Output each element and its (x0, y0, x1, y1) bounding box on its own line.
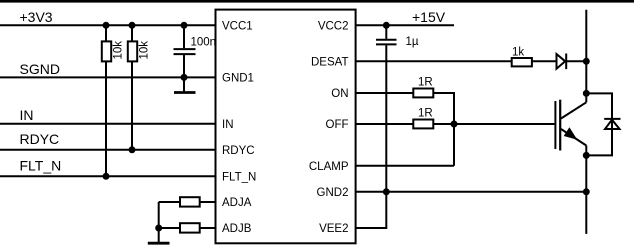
svg-text:10k: 10k (113, 41, 125, 60)
wire OFF to gate (433, 123, 554, 125)
wire emitter rail (585, 146, 587, 234)
svg-text:1R: 1R (418, 77, 433, 89)
wire RDYC (0, 149, 216, 151)
junction ADJ common (155, 225, 162, 232)
junction DESAT/collector rail (583, 58, 590, 65)
capacitor C2 1u (376, 25, 397, 192)
svg-text:DESAT: DESAT (311, 57, 349, 69)
IC U1 body (216, 10, 356, 244)
resistor R5 1k (512, 58, 532, 66)
svg-text:OFF: OFF (326, 119, 349, 131)
ground (SGND) (174, 77, 196, 92)
junction +3V3/R1 (103, 22, 110, 29)
svg-text:+15V: +15V (412, 9, 446, 25)
capacitor C1 100n (174, 25, 196, 77)
svg-text:VEE2: VEE2 (319, 223, 348, 235)
diode D2 freewheeling (586, 93, 620, 155)
svg-text:SGND: SGND (20, 61, 60, 77)
svg-text:IN: IN (222, 119, 234, 131)
svg-text:IN: IN (20, 107, 34, 123)
junction SGND/C1 (181, 74, 188, 81)
svg-text:1µ: 1µ (406, 36, 419, 48)
resistor R7 1R (OFF) (413, 120, 433, 129)
diode D1 (DESAT) (557, 54, 587, 70)
wire ADJA/ADJB common (158, 202, 160, 228)
wire IN (0, 123, 216, 125)
wire GND2 (356, 191, 587, 193)
junction VCC2/C2 (383, 22, 390, 29)
junction GND2/emitter rail (583, 188, 590, 195)
svg-text:1R: 1R (418, 108, 433, 120)
wire +3V3 to VCC1 (0, 24, 216, 26)
wire CLAMP (356, 165, 454, 167)
junction gate node (451, 121, 458, 128)
svg-text:RDYC: RDYC (222, 145, 255, 157)
svg-text:ADJB: ADJB (222, 223, 252, 235)
svg-text:CLAMP: CLAMP (309, 161, 349, 173)
transistor Q1 IGBT (555, 100, 586, 151)
resistor R4 (ADJB) (159, 223, 216, 232)
wire VEE2 (356, 192, 387, 228)
ground (ADJ) (148, 228, 170, 243)
svg-text:ADJA: ADJA (222, 197, 252, 209)
wire VCC2 to +15V (356, 24, 454, 26)
wire SGND to GND1 (0, 76, 216, 78)
wire OFF (356, 123, 414, 125)
svg-text:FLT_N: FLT_N (222, 172, 256, 184)
wire ON to gate node (433, 93, 454, 166)
svg-text:1k: 1k (512, 46, 524, 58)
resistor R6 1R (ON) (413, 89, 433, 98)
junction collector/D2 (583, 90, 590, 97)
wire FLT_N (0, 175, 216, 177)
junction +3V3/C1 (181, 22, 188, 29)
svg-text:+3V3: +3V3 (20, 9, 53, 25)
resistor R1 10k (pull-up FLT_N) (102, 25, 111, 176)
svg-text:RDYC: RDYC (20, 131, 60, 147)
junction RDYC/R2 (129, 146, 136, 153)
svg-text:ON: ON (331, 88, 348, 100)
resistor R3 (ADJA) (159, 197, 216, 206)
junction FLT_N/R1 (103, 173, 110, 180)
svg-text:10k: 10k (139, 41, 151, 60)
svg-text:FLT_N: FLT_N (20, 158, 62, 174)
svg-text:GND2: GND2 (317, 187, 349, 199)
wire DESAT (356, 60, 511, 62)
wire ON (356, 92, 414, 94)
junction GND2/C2 (383, 188, 390, 195)
wire 1k to D1 (532, 60, 556, 62)
junction emitter/D2 (583, 152, 590, 159)
wire collector rail (585, 10, 587, 103)
svg-text:VCC2: VCC2 (318, 21, 349, 33)
top border rule (0, 0, 634, 3)
svg-text:VCC1: VCC1 (222, 21, 253, 33)
junction +3V3/R2 (129, 22, 136, 29)
svg-text:GND1: GND1 (222, 73, 254, 85)
svg-text:100n: 100n (191, 36, 217, 48)
resistor R2 10k (pull-up RDYC) (128, 25, 137, 150)
